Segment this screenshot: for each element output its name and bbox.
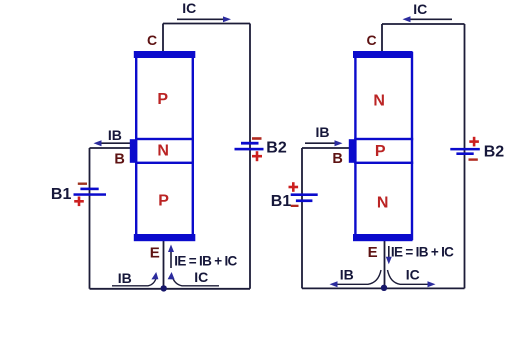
svg-text:C: C xyxy=(147,32,157,48)
svg-text:P: P xyxy=(375,143,386,160)
svg-text:E: E xyxy=(150,244,160,261)
svg-text:IB: IB xyxy=(340,267,354,283)
svg-text:IC: IC xyxy=(194,269,208,285)
svg-text:B1: B1 xyxy=(271,193,292,210)
svg-text:B1: B1 xyxy=(51,186,72,203)
svg-text:N: N xyxy=(377,195,389,212)
svg-text:P: P xyxy=(158,193,169,210)
svg-text:B: B xyxy=(114,152,124,168)
svg-text:B: B xyxy=(332,151,342,167)
svg-text:P: P xyxy=(157,91,168,108)
svg-text:IE = IB + IC: IE = IB + IC xyxy=(174,254,237,269)
svg-text:IC: IC xyxy=(406,267,420,283)
svg-text:IB: IB xyxy=(108,127,122,143)
svg-text:E: E xyxy=(368,244,378,261)
svg-text:IB: IB xyxy=(316,124,330,140)
svg-text:B2: B2 xyxy=(484,143,505,160)
svg-text:IC: IC xyxy=(182,0,196,16)
svg-text:B2: B2 xyxy=(266,139,287,156)
svg-text:N: N xyxy=(157,143,169,160)
svg-text:N: N xyxy=(373,93,385,110)
svg-text:IB: IB xyxy=(118,270,132,286)
svg-text:IE = IB + IC: IE = IB + IC xyxy=(391,245,454,260)
svg-text:C: C xyxy=(366,32,376,48)
svg-text:IC: IC xyxy=(413,1,427,17)
